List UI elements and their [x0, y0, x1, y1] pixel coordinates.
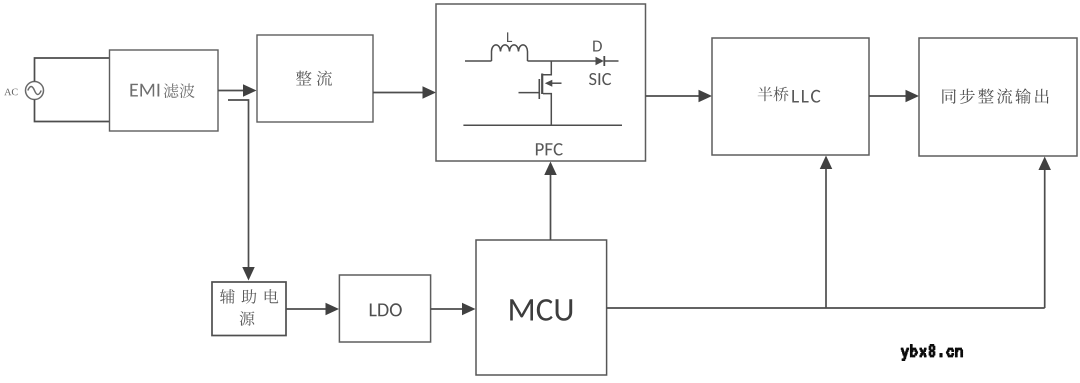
wire MCU feedback bus to the right	[607, 307, 1045, 309]
label SIC (diode type)	[589, 73, 611, 85]
block synchronous rectifier output 同步整流输出	[919, 38, 1077, 156]
block MCU U1	[476, 240, 607, 375]
label 同步整流输出	[942, 88, 1048, 103]
wire PFC bottom bus	[463, 124, 622, 126]
wire AC bottom to EMI filter	[35, 100, 111, 122]
arrow aux power to LDO	[286, 308, 326, 310]
label EMI滤波	[130, 84, 159, 97]
arrow LDO to MCU	[431, 308, 463, 310]
wire diode cathode to PFC output	[604, 60, 618, 62]
label D (diode ref)	[593, 41, 602, 52]
block EMI filter	[110, 50, 219, 131]
wire PFC input node	[465, 60, 492, 62]
label MCU	[510, 299, 572, 321]
diode D1 SiC (anode left, cathode right)	[596, 57, 604, 66]
MOSFET Q1 (PFC switch)	[519, 61, 562, 125]
wire branch EMI output to aux power (arrow down)	[228, 100, 249, 268]
watermark ybx8.cn	[901, 344, 963, 360]
label AC	[4, 89, 17, 96]
arrow rectifier to PFC	[373, 92, 423, 94]
block PFC boost converter	[436, 4, 646, 161]
arrow LLC to sync rectifier output	[869, 95, 906, 97]
arrow MCU to PFC (gate drive)	[550, 174, 552, 240]
arrow EMI filter to rectifier	[218, 90, 244, 92]
block rectifier 整流	[257, 35, 373, 122]
AC source V1	[26, 82, 44, 100]
block half-bridge LLC	[712, 38, 869, 155]
label LDO	[370, 303, 402, 316]
label L (inductor value)	[507, 32, 512, 42]
block LDO	[339, 275, 430, 342]
arrow PFC to half-bridge LLC	[646, 95, 700, 97]
label 辅助电源 (two lines)	[220, 289, 278, 304]
wire inductor to diode	[528, 60, 596, 62]
wire AC top to EMI filter	[35, 58, 111, 82]
arrow feedback riser to LLC bottom	[825, 168, 827, 308]
label 整流	[296, 71, 332, 86]
label PFC	[536, 143, 563, 155]
block auxiliary power 辅助电源	[212, 282, 286, 336]
inductor L1	[492, 45, 528, 61]
label 半桥LLC	[758, 87, 789, 102]
arrow feedback riser to sync rectifier bottom	[1044, 169, 1046, 308]
